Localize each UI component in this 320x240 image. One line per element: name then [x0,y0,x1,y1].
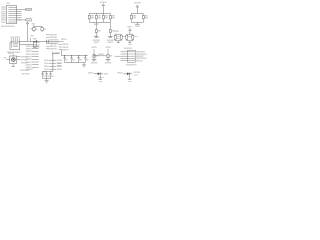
net rows mid [46,42,57,50]
svg-text:xwmv: xwmv [26,9,31,11]
wire crystal top [34,25,42,27]
svg-text:xwmv: xwmv [133,75,139,77]
svg-text:xwmvx: xwmvx [88,72,94,75]
svg-text:xwmv: xwmv [104,72,109,75]
label bottom left bus [42,70,47,73]
caption under USB [7,51,21,54]
power flag 1 [100,1,107,13]
svg-text:xwmvxw: xwmvxw [91,62,98,65]
pin labels J1 left [1,6,6,24]
svg-text:xwmv: xwmv [94,23,100,26]
svg-text:xwmvxw: xwmvxw [50,48,57,51]
resistors cluster1 [88,13,115,22]
wire net flag row7 [17,19,32,22]
gnd clusterB [128,41,132,46]
svg-text:xwm: xwm [133,18,136,20]
caption J2 [126,63,137,66]
net label X2 [46,36,57,39]
svg-text:xw: xw [110,56,113,58]
svg-text:xwmv: xwmv [55,52,61,54]
wire center A [20,40,61,42]
labels J2 right [136,52,147,63]
label J1 [6,2,9,5]
svg-text:xwm: xwm [33,38,37,41]
power flag VCC [26,22,28,26]
gnd clusterA [117,41,120,43]
gnd bank [82,63,86,68]
diode D1 [88,72,109,76]
svg-text:xwmv: xwmv [135,25,141,28]
capacitor C5 inline [47,40,49,44]
caption D1 [98,77,105,83]
svg-text:xwmvx: xwmvx [98,77,105,79]
svg-text:xwmv: xwmv [114,30,119,33]
connector J2 [128,50,136,62]
svg-text:xwmvx: xwmvx [57,68,63,71]
junction text [94,23,100,26]
svg-text:xw: xw [44,28,46,31]
rail clusterA bottom [115,40,121,42]
svg-text:xwmv: xwmv [108,42,114,44]
svg-text:xwmvx: xwmvx [98,53,105,56]
svg-text:xwmvxw: xwmvxw [105,62,112,65]
label below wire A [49,42,59,45]
stub C1 bottom [33,31,35,32]
svg-text:xwmvxwmv: xwmvxwmv [124,47,133,50]
stub rows Q1 right [17,56,28,65]
gnd D1 [98,75,102,79]
svg-text:xw: xw [30,27,32,30]
power flag 2 [134,2,141,14]
labels above bank [59,43,69,51]
caps under cluster1 [93,22,115,44]
pin Q1 bottom [12,63,15,66]
svg-text:xwm: xwm [91,18,94,20]
net label end A [60,38,67,41]
bus vertical [52,51,54,71]
caption under J1 [1,25,15,28]
svg-text:xwm: xwm [98,18,101,20]
svg-text:xwm: xwm [99,81,103,83]
text clusterB [128,36,138,38]
svg-text:xw: xw [47,76,50,78]
svg-text:xw: xw [79,59,82,61]
labels bank left [57,62,61,68]
net column bottom text [26,68,33,71]
svg-text:xw: xw [123,36,126,38]
svg-text:xw: xw [65,59,68,61]
svg-text:xwmv: xwmv [105,46,111,49]
svg-text:xwm: xwm [128,36,131,38]
svg-text:xw: xw [98,31,101,33]
svg-text:xwm: xwm [32,22,36,25]
resistors RV1 RV2 [91,46,113,65]
svg-text:xwmvxw: xwmvxw [136,60,143,62]
svg-text:xwmv: xwmv [127,26,132,28]
label cluster A [114,30,119,33]
stub C2 bottom [41,31,43,32]
jack J3 [33,42,40,49]
net label column [26,45,39,69]
svg-text:xwmv: xwmv [91,46,97,49]
svg-text:xw: xw [37,46,40,48]
svg-text:xwmvxwmvxwmvx: xwmvxwmvxwmvx [1,25,15,28]
caps C6 C7 C8 [42,72,54,79]
net label X1 [46,34,57,37]
svg-text:xwm: xwm [112,18,115,20]
power flag B [127,26,132,34]
bus rows [44,59,63,71]
diode D2 [117,71,140,76]
svg-text:xwm: xwm [6,2,9,5]
svg-text:xwmvxwmvx: xwmvxwmvx [10,36,20,39]
wire net flag row2 [17,8,32,11]
svg-text:xwmv: xwmv [1,21,6,24]
svg-text:xwm: xwm [145,18,148,20]
label above crystal [32,22,36,26]
svg-text:xw: xw [51,76,54,78]
pins J2 [115,52,136,61]
rail bank top [62,55,88,57]
svg-text:xwmvx: xwmvx [61,38,67,41]
bank caps [64,55,89,62]
svg-text:xwm: xwm [128,81,132,83]
svg-text:xw: xw [3,57,6,60]
label above wire A [49,39,59,42]
rail bank bottom [65,62,86,64]
wire VCC down [27,26,29,41]
connector J1 [7,5,17,23]
rail cluster1 [89,12,110,14]
svg-text:xwmvxwm: xwmvxwm [22,73,30,76]
gnd cluster2 [135,22,141,28]
pin Q1 top [8,52,13,56]
capacitor C1 [30,26,38,31]
junction dot [36,40,38,42]
rail clusterB [127,33,133,35]
rail clusterA [115,33,121,35]
pin Q1 right [17,59,21,61]
rail caps bottom [43,78,51,80]
text clusterA [117,36,126,40]
svg-text:xwmv: xwmv [94,42,100,44]
pin Q1 left [3,57,9,60]
transistor Q1 [10,56,17,63]
svg-text:xwmvx: xwmvx [62,48,69,51]
svg-text:xw: xw [72,59,75,61]
gnd D2 [128,75,132,83]
title right connector [124,47,133,50]
gnd bottom-center [45,79,49,84]
svg-text:xw: xw [86,59,89,61]
USB connector [10,42,20,50]
pins USB top [10,36,20,42]
svg-text:xwm: xwm [57,65,61,68]
svg-text:xwm: xwm [117,38,120,40]
gnd label crystal [30,35,33,38]
resistors clusterB [126,34,134,41]
rail cluster2 [131,12,143,14]
wire between [93,53,106,57]
capacitor C2 [41,26,46,31]
resistors clusterA [114,34,122,41]
wire stubs J1 right [17,12,22,20]
caption Q1 [20,69,30,76]
svg-text:xwm: xwm [134,36,138,38]
svg-text:xw: xw [36,28,38,31]
svg-text:xwm: xwm [105,18,108,20]
riser bank [61,50,63,56]
branch right [52,52,60,54]
svg-text:xwm: xwm [128,44,132,46]
stub into jack [31,38,37,42]
svg-text:xwmvx: xwmvx [117,72,123,75]
rail caps top [43,71,53,73]
rail cluster1 bottom [89,21,110,23]
svg-text:xw: xw [43,76,46,78]
svg-text:xwm: xwm [8,52,12,55]
svg-text:xwmvxwmvxw: xwmvxwmvxw [126,63,137,66]
wire center B [20,44,34,46]
svg-text:xwmvxw: xwmvxw [134,2,141,5]
rail clusterB bottom [127,40,133,42]
rail cluster2 bottom [131,21,143,23]
svg-text:xwmvxw: xwmvxw [26,68,33,71]
svg-text:xwmv: xwmv [26,20,31,22]
resistors cluster2 [130,13,148,22]
